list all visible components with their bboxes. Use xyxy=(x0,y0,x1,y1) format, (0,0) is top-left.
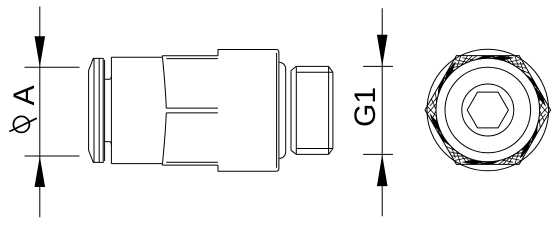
extension line G1 top xyxy=(363,65,393,67)
extension line phi-A top xyxy=(25,66,80,68)
extension line G1 bottom xyxy=(363,153,393,155)
thread major top line xyxy=(296,65,328,67)
end-view chamfer hatch ticks xyxy=(427,56,548,164)
hex chamfer arc left bottom-half xyxy=(163,113,167,164)
hex chamfer tangent line top xyxy=(166,58,218,60)
hex step-up riser top xyxy=(161,56,163,58)
thread end chamfer slant bottom xyxy=(329,149,333,155)
thread minor bottom line xyxy=(296,148,333,150)
body bottom silhouette xyxy=(111,163,162,165)
thread start chamfer slant bottom xyxy=(291,150,296,154)
hex front corner edge lower xyxy=(166,112,218,114)
hex chamfer tangent line bottom xyxy=(166,161,218,163)
hex top silhouette xyxy=(162,55,218,57)
body top silhouette xyxy=(111,56,162,58)
end-view body circle xyxy=(445,67,531,153)
dimension line G1 (vertical) xyxy=(381,8,383,216)
relief groove right wall xyxy=(290,71,292,151)
hex chamfer arc left top-half xyxy=(163,57,167,108)
arrowhead G1 bottom (points up) xyxy=(377,155,388,187)
arrowhead phi-A bottom (points up) xyxy=(35,156,46,187)
end-view chamfer circle xyxy=(436,58,540,162)
body left face xyxy=(110,57,112,163)
end-view outer circle (collar OD) xyxy=(427,49,549,171)
dimension line phi-A (vertical) xyxy=(39,7,41,218)
hex bottom silhouette xyxy=(162,164,218,166)
release-ring outline xyxy=(89,58,104,162)
groove floor top edge xyxy=(105,76,112,79)
round collar outline xyxy=(218,50,279,172)
hex front corner edge upper xyxy=(166,107,218,109)
groove floor bottom edge xyxy=(105,142,112,145)
thread relief arc bottom xyxy=(279,151,285,158)
thread end chamfer slant top xyxy=(329,66,333,72)
relief groove left wall xyxy=(285,70,287,152)
thread end chamfer edge line xyxy=(328,66,330,154)
extension line phi-A bottom xyxy=(25,155,80,157)
release-ring lip/sleeve edge line xyxy=(98,58,100,162)
arrowhead G1 top (points down) xyxy=(377,35,388,66)
thread relief arc top xyxy=(279,62,285,69)
thread major bottom line xyxy=(296,153,328,155)
end-view thread circle xyxy=(462,84,514,136)
collar right face inner edge line xyxy=(276,53,278,168)
thread minor top line xyxy=(296,71,333,73)
svg-text:A: A xyxy=(8,85,41,105)
release-ring chamfer edge line xyxy=(93,58,95,162)
hex step-up riser bottom xyxy=(161,164,163,166)
arrowhead phi-A top (points down) xyxy=(35,36,46,67)
thread end face xyxy=(332,72,334,148)
end-view hex nut outline xyxy=(425,56,551,165)
end-view hex socket xyxy=(467,92,508,128)
thread start edge line xyxy=(295,66,297,154)
label phi-A diameter symbol circle xyxy=(13,116,29,132)
label phi-A diameter symbol slash xyxy=(10,118,37,131)
release-ring sleeve inner-wall line xyxy=(104,60,106,161)
thread start chamfer slant top xyxy=(291,66,296,70)
svg-text:G1: G1 xyxy=(349,87,382,127)
